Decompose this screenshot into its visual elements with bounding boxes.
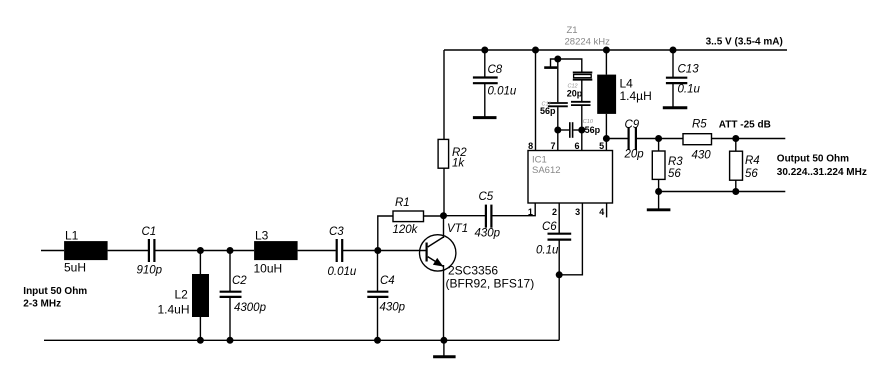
svg-text:2-3 MHz: 2-3 MHz [23,298,61,309]
svg-text:2SC3356: 2SC3356 [448,264,498,278]
svg-text:56: 56 [745,168,758,180]
ground under emitter rail [433,340,456,357]
svg-text:4300p: 4300p [234,302,267,314]
wire C3 to transistor base [343,250,426,252]
svg-text:ATT -25 dB: ATT -25 dB [719,119,771,130]
IC U1 SA612 box [528,151,613,204]
svg-text:0.01u: 0.01u [328,266,357,278]
svg-text:3: 3 [575,207,580,217]
svg-text:C9: C9 [625,119,640,131]
svg-text:56: 56 [668,168,681,180]
svg-text:IC1: IC1 [532,155,547,166]
svg-text:R3: R3 [668,156,683,168]
ground at crystal node [544,59,558,68]
wire L3 to C3 [298,250,336,252]
wire L1 to C1 [108,250,148,252]
crystal Z1 [565,25,611,80]
wire R3 bottom to lower rail [658,179,660,191]
wire R4 bottom to lower rail [735,180,737,191]
wire C11 bottom to node A [557,107,559,130]
svg-text:(BFR92, BFS17): (BFR92, BFS17) [446,277,535,291]
ground under C8 [473,116,497,119]
wire C9 to R3 node [637,138,659,140]
wire node A to C10 left plate [558,129,569,131]
svg-text:1k: 1k [452,158,465,170]
wire collector feed from rail down to R2 [443,50,445,139]
wire C5 right plate to pin 1 of IC1 [492,203,535,216]
svg-text:1: 1 [528,207,533,217]
svg-text:C13: C13 [678,64,700,76]
svg-text:5: 5 [599,141,604,151]
svg-text:56p: 56p [585,125,601,135]
wire L4 bottom to pin 5 node [605,114,607,139]
wire pin 8 from supply rail to IC1 [535,50,537,151]
svg-text:56p: 56p [540,106,556,116]
wire bottom ground rail [44,339,559,341]
svg-text:0.1u: 0.1u [536,245,559,257]
capacitor C3 [337,239,343,262]
wire pin 5 stub [605,139,607,151]
wire top supply rail [444,49,787,51]
wire R5 right to output node [712,138,786,140]
wire C12 bottom to node C [581,106,583,130]
wire R3 node to R5 left [659,138,683,140]
svg-text:C2: C2 [232,275,247,287]
ground under R3 [647,192,671,210]
wire C13 bottom to ground [672,84,674,107]
wire C5 row: collector node to C5 and pin 1 [444,215,485,217]
resistor R2 [438,139,467,169]
svg-text:430p: 430p [380,302,406,314]
svg-text:VT1: VT1 [447,223,468,235]
wire crystal node down to C11 [557,59,559,102]
svg-text:2: 2 [552,207,557,217]
capacitor C6 [548,234,572,240]
svg-text:910p: 910p [137,265,163,277]
resistor R4 [730,151,760,180]
capacitor C12 [571,102,591,105]
wire C2 branch top [229,251,231,292]
wire C1 to L3 through junctions [155,250,254,252]
wire node A to pin 7 [557,130,559,151]
wire C4 bottom [377,297,379,340]
svg-text:C8: C8 [488,64,503,76]
svg-text:SA612: SA612 [532,165,561,176]
wire L2 bottom to ground rail [199,317,201,340]
svg-text:4: 4 [599,207,604,217]
wire node C to pin 6 [581,130,583,151]
svg-text:1.4µH: 1.4µH [620,89,652,103]
wire C6 junction to pin 3 line [559,203,582,275]
svg-text:3..5 V (3.5-4 mA): 3..5 V (3.5-4 mA) [706,37,783,48]
inductor L2 [158,274,210,317]
wire C6 bottom to junction [558,239,560,274]
resistor R5 [683,119,712,162]
svg-text:0.01u: 0.01u [488,86,517,98]
capacitor C9 [629,127,636,150]
capacitor C4 [367,292,388,297]
inductor L3 [254,229,298,276]
svg-text:R4: R4 [745,155,760,167]
wire pin 4 stub [606,203,608,217]
wire crystal node right step down to Z1 top [558,59,582,72]
svg-text:Output 50 Ohm: Output 50 Ohm [777,153,849,164]
svg-text:C3: C3 [329,226,344,238]
wire input line left [41,250,64,252]
wire emitter down to ground rail [443,270,445,340]
svg-text:430: 430 [692,150,712,162]
svg-text:8: 8 [528,141,533,151]
wire lower output return rail [659,191,786,193]
svg-text:5uH: 5uH [64,261,86,275]
wire R2 bottom to collector node [443,168,445,216]
wire C13 from rail [672,50,674,77]
svg-text:20p: 20p [624,149,645,161]
svg-text:1.4uH: 1.4uH [158,303,190,317]
svg-text:28224 kHz: 28224 kHz [565,37,611,48]
wire L4 top to supply rail [605,50,607,75]
wire pin 5 node to C9 [606,138,628,140]
wire C2 bottom [229,297,231,340]
svg-text:20p: 20p [567,88,583,98]
wire R3 node down to R3 [658,139,660,152]
capacitor C11 [548,103,568,106]
svg-text:7: 7 [550,141,555,151]
svg-text:Z1: Z1 [567,25,578,36]
capacitor C2 [220,292,242,297]
inductor L1 [64,229,108,275]
capacitor C8 [473,78,498,84]
svg-text:0.1u: 0.1u [678,84,701,96]
capacitor C1 [149,239,155,262]
svg-text:Input 50 Ohm: Input 50 Ohm [23,286,87,297]
svg-text:R5: R5 [692,119,707,131]
svg-text:C5: C5 [479,191,494,203]
svg-text:C1: C1 [142,226,157,238]
wire pin 2 down to C6 [558,203,560,234]
svg-text:C4: C4 [380,275,395,287]
svg-text:C6: C6 [542,221,557,233]
wire C6 junction down to ground rail [558,275,560,341]
svg-text:R1: R1 [395,197,410,209]
svg-text:L1: L1 [65,229,79,243]
wire C8 from rail [484,50,486,77]
svg-text:30.224..31.224 MHz: 30.224..31.224 MHz [777,167,867,178]
svg-text:430p: 430p [475,228,501,240]
wire L2 branch [199,251,201,275]
wire base node up to R1 left [378,216,393,251]
svg-text:120k: 120k [393,224,419,236]
ground under C13 [663,106,688,109]
svg-text:6: 6 [574,141,579,151]
wire C10 right plate to node C [573,129,581,131]
capacitor C5 [486,205,492,228]
capacitor C13 [666,78,687,83]
svg-text:L3: L3 [255,229,269,243]
wire C8 bottom to ground [484,84,486,117]
svg-text:L2: L2 [175,288,189,302]
resistor R3 [652,151,683,180]
svg-text:10uH: 10uH [254,262,283,276]
transistor VT1 [420,216,456,271]
wire R4 top [735,139,737,152]
wire R1 right to collector node [424,215,445,217]
capacitor C10 [570,122,573,138]
resistor R1 [393,197,424,236]
wire Z1 bottom to C12 [581,80,583,101]
inductor L4 [597,75,652,114]
wire C4 branch top [377,251,379,292]
